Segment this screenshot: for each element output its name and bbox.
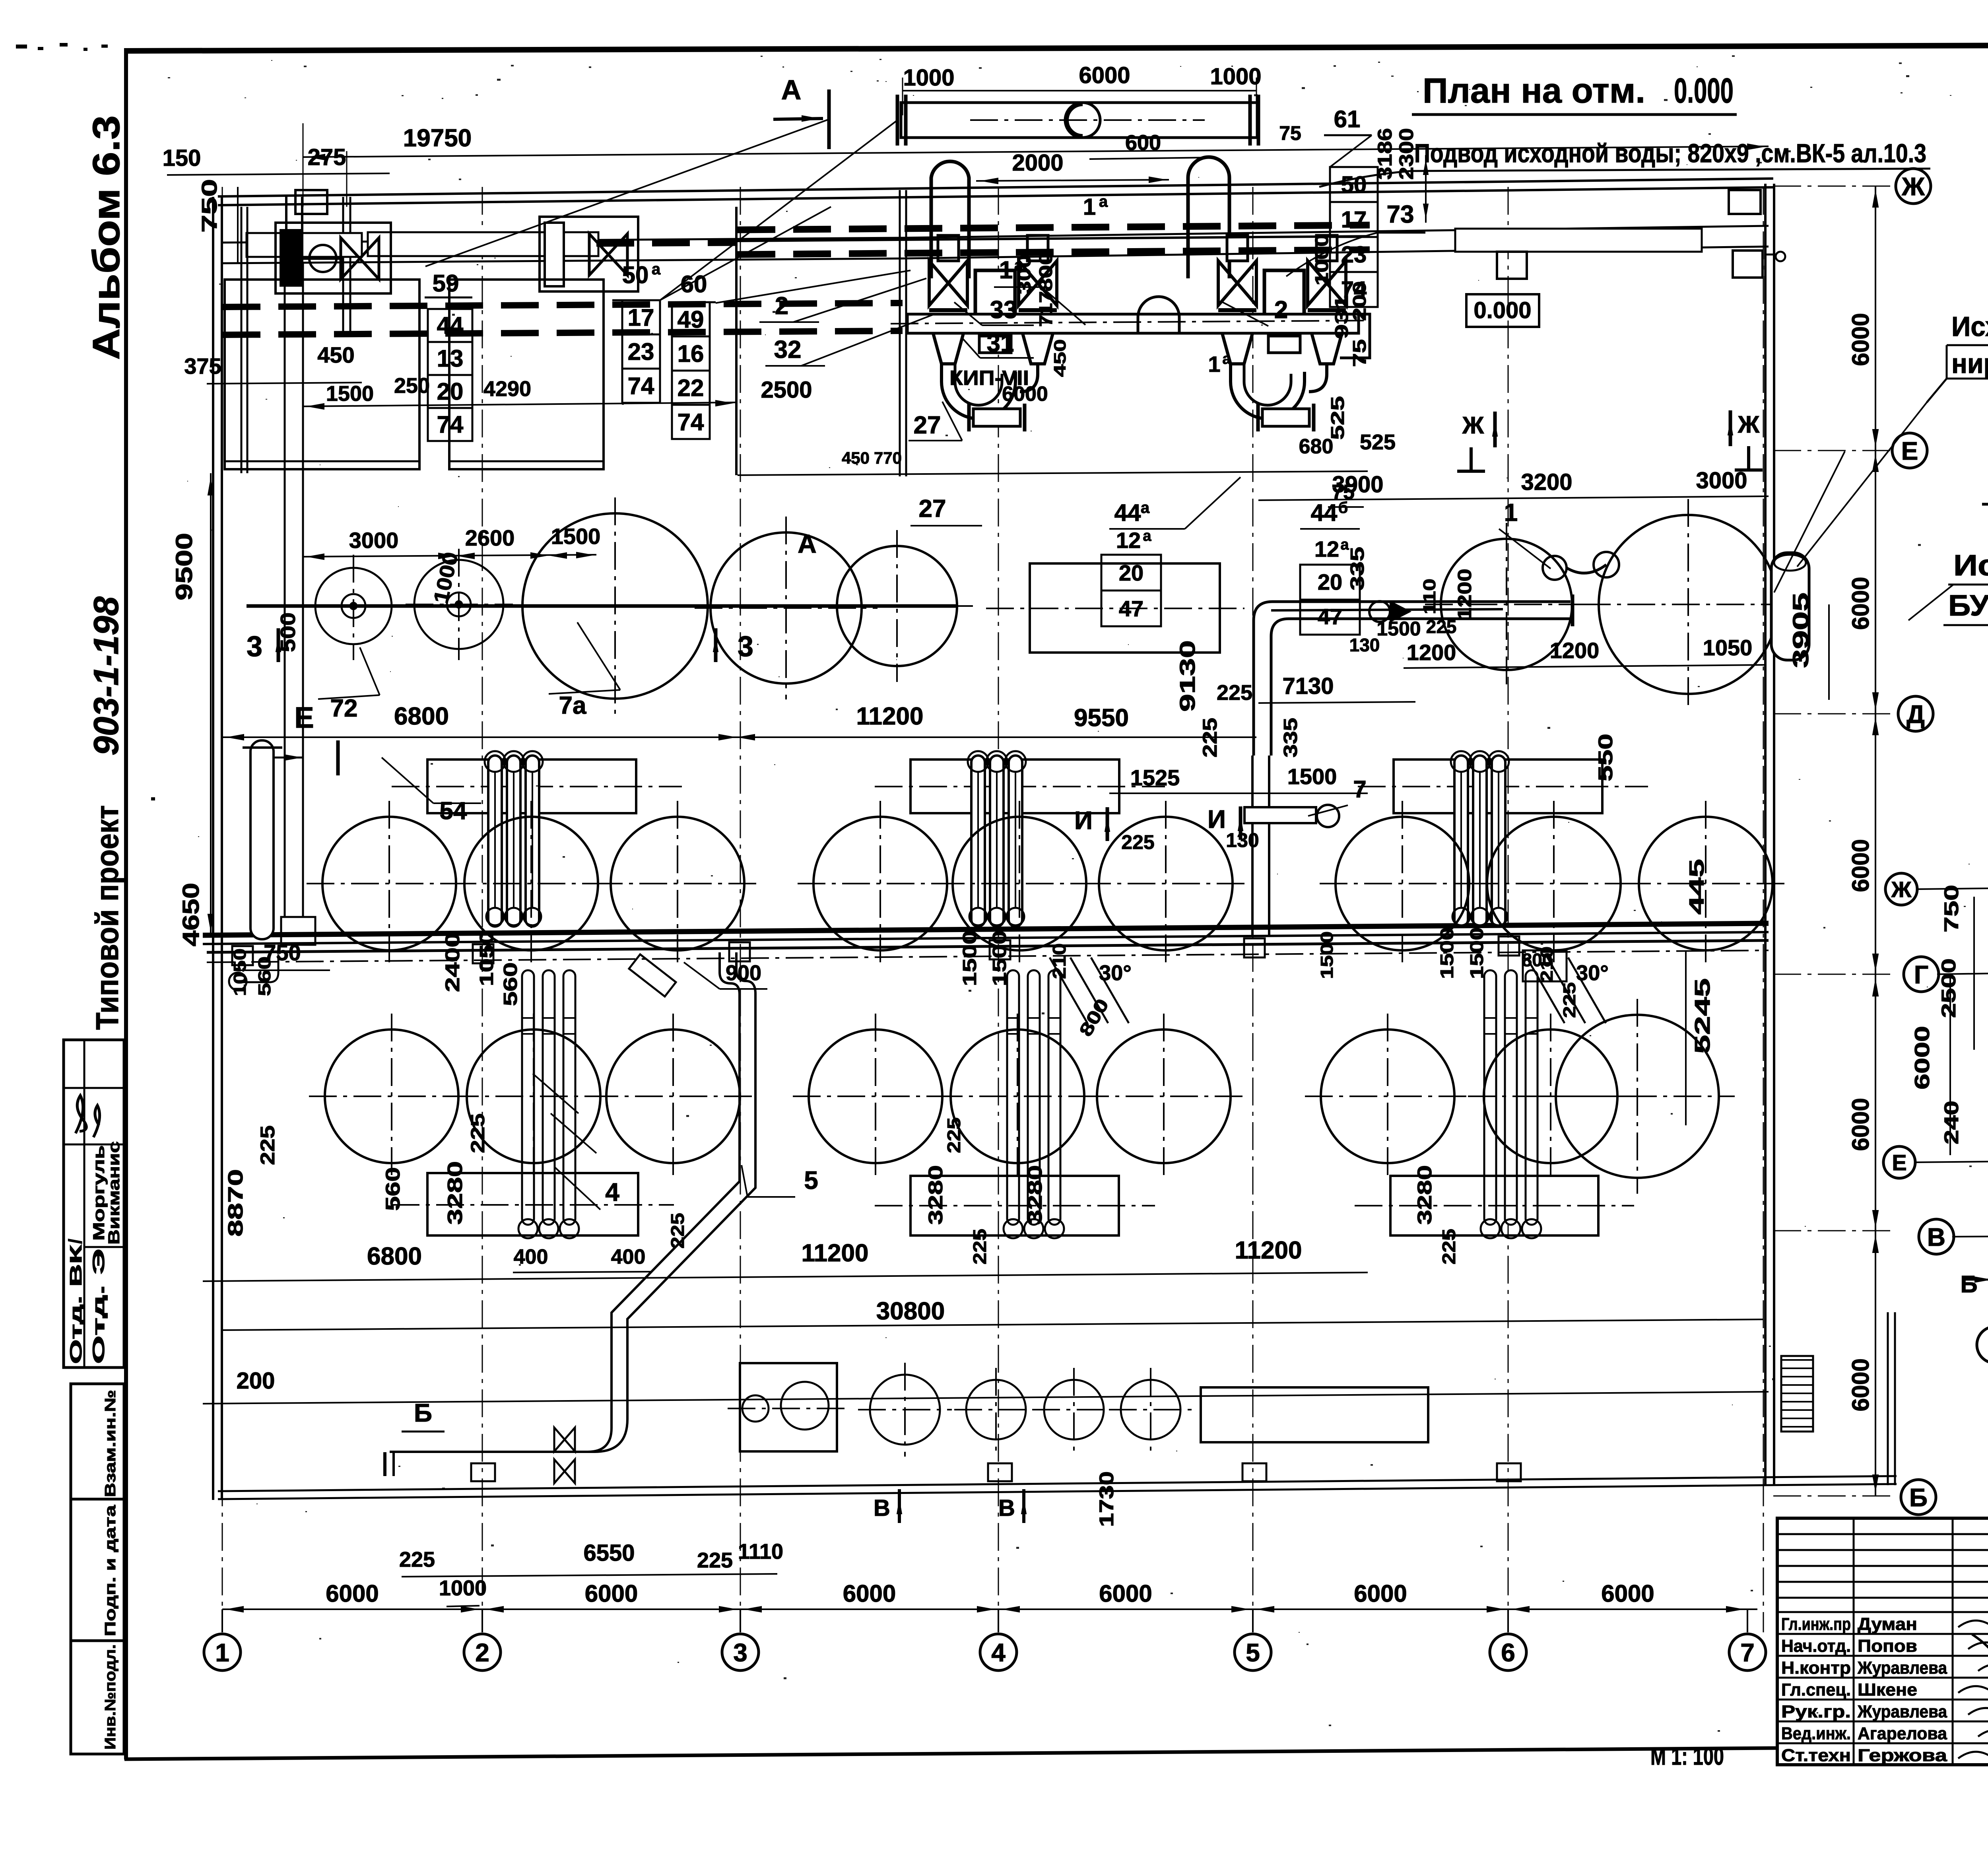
svg-text:а: а — [1222, 351, 1231, 367]
row1 pipe elbow and run — [1254, 602, 1571, 756]
svg-text:А: А — [781, 74, 802, 105]
svg-text:200: 200 — [237, 1368, 275, 1394]
left stamp table box Inv N podl — [71, 1641, 124, 1754]
lower pipe group at 1380 — [522, 970, 534, 1225]
svg-text:30800: 30800 — [876, 1298, 945, 1325]
svg-text:Подвод исходной воды; 820х9 ,: Подвод исходной воды; 820х9 ,см.ВК-5 ал.… — [1414, 138, 1926, 168]
small tank at 2701 — [1044, 1380, 1104, 1439]
svg-text:22: 22 — [678, 375, 704, 401]
svg-text:1000: 1000 — [1210, 64, 1261, 89]
svg-text:13: 13 — [437, 345, 464, 372]
rack pipe 1 — [1473, 756, 1487, 927]
svg-text:Е: Е — [1892, 1150, 1906, 1175]
axis circle Ж — [1885, 873, 1917, 905]
svg-text:6000: 6000 — [1847, 313, 1874, 366]
svg-text:75: 75 — [1279, 122, 1301, 144]
svg-text:525: 525 — [1360, 430, 1396, 454]
svg-text:4290: 4290 — [483, 377, 531, 401]
svg-text:903-1-198: 903-1-198 — [86, 596, 126, 756]
vertical pipe pair x716 through room — [284, 263, 286, 917]
svg-text:И: И — [1208, 805, 1226, 833]
svg-text:750: 750 — [198, 179, 221, 233]
pump outlet flanges — [967, 404, 971, 431]
left stamp table upper box — [64, 1040, 124, 1367]
svg-text:6000: 6000 — [1911, 1026, 1934, 1090]
svg-text:6800: 6800 — [367, 1243, 422, 1270]
dashed pipe lines pump corridor — [738, 225, 1370, 230]
svg-text:44: 44 — [1114, 499, 1141, 526]
svg-text:Б: Б — [1960, 1271, 1977, 1298]
svg-text:6000: 6000 — [1079, 62, 1130, 88]
svg-text:11200: 11200 — [856, 703, 924, 730]
svg-text:300: 300 — [1014, 254, 1035, 294]
svg-text:Шкене: Шкене — [1858, 1680, 1917, 1700]
pipe drop to lower at x3150 — [1251, 756, 1254, 936]
row1 pump circle 72 — [315, 568, 392, 644]
svg-text:Ст.техн: Ст.техн — [1781, 1746, 1851, 1765]
tank circle at 3527,2222 — [1336, 817, 1469, 950]
svg-text:225: 225 — [399, 1548, 435, 1571]
axis number circles bottom — [221, 1609, 223, 1632]
svg-text:1200: 1200 — [1454, 569, 1475, 620]
riser pipe left wall down — [250, 740, 274, 939]
svg-text:450: 450 — [317, 342, 354, 367]
svg-text:20: 20 — [1318, 569, 1342, 594]
frame top border — [124, 44, 1988, 51]
svg-text:Гл.инж.пр: Гл.инж.пр — [1781, 1614, 1851, 1634]
leader from blokam note down — [1908, 585, 1953, 620]
axis circle 3 — [722, 1634, 759, 1671]
main building interior right wall — [1764, 184, 1767, 1485]
svg-text:Вед.инж.: Вед.инж. — [1781, 1724, 1851, 1743]
tank circle at 2927,2757 — [1097, 1030, 1231, 1163]
tank circle at 1704,2222 — [611, 817, 744, 950]
svg-text:4: 4 — [991, 1638, 1006, 1667]
svg-text:6000: 6000 — [1847, 577, 1874, 630]
axis circle 2 — [464, 1634, 501, 1671]
svg-text:50: 50 — [622, 262, 649, 288]
svg-text:Журавлева: Журавлева — [1857, 1702, 1947, 1721]
wall pilasters top wall — [295, 190, 327, 214]
svg-text:2000: 2000 — [1012, 150, 1063, 176]
bottom long rectangle — [1201, 1387, 1428, 1442]
svg-text:130: 130 — [1349, 635, 1380, 655]
svg-text:Викманис: Викманис — [105, 1141, 123, 1245]
svg-text:225: 225 — [944, 1117, 964, 1153]
svg-text:И: И — [1074, 806, 1093, 835]
svg-text:225: 225 — [1199, 718, 1221, 758]
svg-text:Ж: Ж — [1462, 412, 1484, 439]
row1 equipment rectangle — [1030, 563, 1220, 653]
small pipe fitting row2 area — [1244, 807, 1316, 823]
svg-text:800: 800 — [1035, 252, 1056, 291]
svg-text:3280: 3280 — [924, 1165, 947, 1225]
pump outlet flanges — [1256, 404, 1260, 431]
svg-text:0.000: 0.000 — [1674, 71, 1734, 110]
pipe rack rectangle upper at 3505 — [1394, 760, 1602, 813]
svg-text:75: 75 — [1349, 339, 1370, 367]
svg-text:Инв.№подл.: Инв.№подл. — [102, 1644, 119, 1750]
svg-text:А: А — [798, 529, 817, 558]
svg-text:Нач.отд.: Нач.отд. — [1781, 1636, 1851, 1656]
svg-text:3000: 3000 — [1696, 468, 1747, 493]
svg-text:4: 4 — [605, 1178, 619, 1206]
svg-text:335: 335 — [1347, 547, 1368, 591]
lower pipe group at 3800 — [1484, 970, 1496, 1225]
number stack 50 17 23 74 right — [1330, 167, 1378, 202]
svg-text:61: 61 — [1334, 106, 1361, 132]
svg-text:800: 800 — [1522, 950, 1553, 970]
stair hatch bottom right — [1781, 1356, 1813, 1432]
axis circle 4 — [980, 1634, 1017, 1671]
svg-text:6000: 6000 — [1002, 383, 1048, 406]
rack pipe 0 — [1454, 756, 1468, 927]
right lower wall segment — [1887, 1312, 1889, 1485]
svg-text:Отд. Э: Отд. Э — [89, 1249, 108, 1364]
main building top wall — [218, 187, 1773, 205]
svg-text:Исходная вода в линию Н-катио-: Исходная вода в линию Н-катио- — [1951, 311, 1988, 342]
svg-text:План на отм.: План на отм. — [1423, 71, 1645, 110]
valve left branch — [929, 261, 967, 305]
svg-text:1: 1 — [999, 256, 1013, 284]
svg-text:6000: 6000 — [843, 1580, 896, 1607]
svg-text:750: 750 — [1940, 885, 1963, 932]
row1 dim 3000 2600 1500 — [302, 555, 596, 557]
svg-text:600: 600 — [1125, 131, 1161, 155]
manifold flange right — [1248, 95, 1252, 146]
svg-text:Подп. и дата: Подп. и дата — [102, 1505, 119, 1636]
svg-text:20: 20 — [437, 378, 464, 405]
pump U pipe — [942, 364, 1015, 419]
svg-text:3: 3 — [738, 631, 753, 662]
svg-text:5: 5 — [804, 1166, 818, 1195]
svg-text:9130: 9130 — [1176, 640, 1200, 712]
funnel left branch — [928, 316, 968, 364]
svg-text:Гл.спец.: Гл.спец. — [1781, 1680, 1851, 1700]
pipe along middle wall — [207, 940, 1769, 952]
svg-text:Д: Д — [1906, 700, 1925, 728]
interior wall axis2-left room — [342, 197, 344, 336]
svg-text:50: 50 — [1341, 172, 1367, 198]
small tank at 2894 — [1121, 1380, 1180, 1439]
svg-text:1: 1 — [1504, 499, 1518, 526]
svg-text:6000: 6000 — [326, 1580, 379, 1607]
manifold arch right + riser — [1188, 157, 1229, 278]
axis circle Д — [1898, 696, 1933, 731]
frame left border — [124, 48, 128, 1760]
svg-text:Типовой проект: Типовой проект — [89, 805, 125, 1030]
svg-text:225: 225 — [468, 1113, 489, 1153]
pipe mid U elbow — [1138, 297, 1179, 333]
pump body — [975, 270, 1015, 316]
pipe rack rectangle upper at 1075 — [427, 760, 636, 813]
small tank at 2505 — [966, 1380, 1026, 1439]
svg-text:560: 560 — [500, 962, 521, 1006]
svg-text:Ж: Ж — [1891, 877, 1912, 902]
svg-text:30°: 30° — [1576, 961, 1609, 985]
svg-text:1500: 1500 — [989, 930, 1010, 986]
svg-text:110: 110 — [1420, 579, 1439, 614]
svg-text:2: 2 — [775, 292, 788, 320]
big signature squiggle over column — [1972, 1626, 1988, 1754]
svg-text:нированной воды; 108х3.5: нированной воды; 108х3.5 — [1951, 348, 1988, 379]
axis circle 1 — [204, 1634, 241, 1671]
dim chain 11200 30800 — [203, 1272, 1368, 1281]
svg-text:1500: 1500 — [959, 930, 980, 986]
svg-text:560: 560 — [255, 956, 274, 996]
svg-text:30°: 30° — [1099, 961, 1132, 985]
wall pilasters middle wall — [232, 946, 253, 965]
rack pipe 0 — [971, 756, 985, 927]
axis circle Ж — [1896, 169, 1931, 204]
svg-text:240: 240 — [1940, 1101, 1963, 1144]
svg-text:Е: Е — [294, 701, 314, 734]
tank circle at 1547,1524 — [522, 513, 708, 699]
tank circle at 3900,2757 — [1484, 1030, 1617, 1163]
svg-text:445: 445 — [1685, 859, 1708, 915]
svg-text:Е: Е — [1901, 437, 1918, 465]
svg-text:73: 73 — [1387, 201, 1414, 228]
vertical 6000 dims right side — [1875, 186, 1876, 1496]
svg-text:16: 16 — [678, 340, 704, 367]
svg-text:225: 225 — [969, 1229, 990, 1265]
tank circle at 2564,2222 — [953, 817, 1086, 950]
upper-left valve assembly 2 — [540, 217, 638, 291]
left pipe drop lower hall — [243, 954, 278, 982]
pump manifold top pipe — [901, 103, 1257, 138]
30 degree bend marks — [1050, 958, 1129, 1023]
svg-text:6000: 6000 — [1354, 1580, 1407, 1607]
svg-text:400: 400 — [611, 1245, 646, 1268]
row1 pump circle 7a — [414, 560, 503, 649]
svg-text:Ж: Ж — [1738, 411, 1760, 438]
svg-text:Рук.гр.: Рук.гр. — [1781, 1702, 1851, 1721]
cylinder fitting right of tank5 — [1771, 553, 1809, 660]
leader from note to plan — [1797, 402, 1927, 567]
svg-text:500: 500 — [277, 612, 300, 652]
tank circle at 979,2222 — [322, 817, 456, 950]
manifold arch left + riser — [931, 161, 969, 278]
svg-text:1500: 1500 — [551, 524, 601, 549]
tank circle at 4246,1520 — [1599, 515, 1778, 694]
svg-text:Взам.ин.№: Взам.ин.№ — [102, 1390, 119, 1497]
svg-text:Журавлева: Журавлева — [1857, 1658, 1947, 1678]
main building left wall — [212, 197, 214, 1500]
svg-text:2500: 2500 — [761, 377, 812, 403]
svg-text:7: 7 — [1740, 1638, 1755, 1667]
row4 box with circles — [740, 1363, 837, 1451]
svg-text:27: 27 — [919, 495, 946, 523]
pump unit at 2385 — [938, 235, 959, 261]
svg-text:7: 7 — [1353, 776, 1366, 802]
svg-text:Г: Г — [1914, 960, 1928, 989]
svg-text:225: 225 — [256, 1125, 279, 1165]
svg-text:1500: 1500 — [1317, 931, 1337, 979]
upper-left horizontal pipe bundle — [223, 238, 903, 243]
svg-text:31: 31 — [987, 330, 1014, 357]
svg-text:Попов: Попов — [1858, 1636, 1917, 1656]
leader lines from tables — [660, 207, 831, 300]
axis circle Е — [1883, 1146, 1915, 1178]
svg-text:23: 23 — [1341, 242, 1367, 268]
svg-text:6000: 6000 — [1601, 1580, 1654, 1607]
tank circle at 1977,1529 — [711, 532, 862, 684]
svg-text:3280: 3280 — [1024, 1165, 1046, 1225]
svg-text:б: б — [1338, 499, 1348, 517]
svg-text:450: 450 — [1050, 339, 1069, 377]
svg-text:44: 44 — [437, 312, 464, 339]
funnel left branch — [1217, 316, 1257, 364]
axis circle 1 — [1977, 1327, 1988, 1363]
svg-text:/: / — [65, 1239, 85, 1244]
svg-text:Б: Б — [1909, 1483, 1928, 1512]
svg-text:12: 12 — [1314, 536, 1339, 561]
svg-text:225: 225 — [1217, 681, 1252, 705]
svg-text:а: а — [1143, 528, 1151, 544]
svg-text:11200: 11200 — [802, 1239, 869, 1267]
svg-text:Альбом 6.3: Альбом 6.3 — [85, 115, 128, 360]
svg-text:2: 2 — [475, 1638, 489, 1667]
svg-text:Думан: Думан — [1858, 1614, 1917, 1634]
svg-text:2600: 2600 — [465, 525, 515, 550]
dims 1000 6000 1000 top — [902, 78, 903, 115]
svg-text:1200: 1200 — [1550, 638, 1600, 663]
svg-text:6550: 6550 — [583, 1540, 635, 1566]
svg-text:1050: 1050 — [1703, 635, 1753, 660]
bottom fittings near pipe5 — [554, 1428, 575, 1451]
svg-text:Ж: Ж — [1901, 172, 1925, 201]
svg-text:27: 27 — [914, 412, 941, 439]
svg-text:5: 5 — [1246, 1638, 1260, 1667]
tank circle at 1693,2757 — [606, 1030, 740, 1163]
axis horizontal segments letters — [1773, 186, 1896, 187]
pipe rack rectangle upper at 2290 — [911, 760, 1119, 813]
svg-text:1110: 1110 — [738, 1540, 783, 1564]
svg-text:450: 450 — [842, 449, 870, 467]
valve fitting on row1 pipe — [1390, 600, 1411, 623]
svg-text:3280: 3280 — [1413, 1165, 1436, 1225]
rack pipe 2 — [1492, 756, 1505, 927]
svg-text:8870: 8870 — [224, 1169, 247, 1237]
axis dim chain bottom 6000s — [222, 1608, 1757, 1610]
svg-text:550: 550 — [1594, 734, 1617, 781]
pipe 1a end elbow right — [1340, 314, 1370, 358]
svg-text:6000: 6000 — [1847, 1098, 1874, 1151]
funnel right branch — [1018, 316, 1058, 364]
valve right branch — [1019, 261, 1057, 305]
tank circle at 2559,2757 — [951, 1030, 1084, 1163]
valve right branch — [1308, 261, 1346, 305]
svg-text:1500: 1500 — [1287, 764, 1337, 789]
svg-text:Н.контр: Н.контр — [1781, 1658, 1851, 1678]
tank circle at 3908,2222 — [1487, 817, 1621, 950]
svg-text:1500: 1500 — [1466, 927, 1487, 979]
lower rack rectangles — [427, 1173, 638, 1235]
svg-text:375: 375 — [184, 354, 221, 379]
svg-text:М 1: 100: М 1: 100 — [1650, 1743, 1724, 1770]
svg-text:Исходная вода к блокам: Исходная вода к блокам — [1953, 549, 1988, 582]
svg-text:а: а — [652, 260, 661, 278]
0.000 level box — [1466, 294, 1539, 327]
svg-text:130: 130 — [1226, 829, 1259, 851]
rack pipe 1 — [990, 756, 1004, 927]
svg-text:17: 17 — [628, 304, 654, 331]
axis circle В — [1919, 1219, 1954, 1254]
dims around row1 right: 3900 3200 3000 — [1258, 496, 1769, 500]
svg-text:1500: 1500 — [1376, 618, 1421, 640]
left stamp signature squiggles — [76, 1096, 100, 1137]
svg-text:74: 74 — [628, 373, 654, 399]
svg-text:47: 47 — [1119, 596, 1143, 621]
svg-text:12: 12 — [1116, 528, 1141, 553]
number stack 12a 20 47 unit1 — [1101, 554, 1161, 556]
axis vertical dash-dot lines 1-7 — [222, 187, 223, 1632]
svg-text:150: 150 — [163, 145, 201, 171]
tank circle at 1342,2757 — [467, 1030, 600, 1163]
frame bottom border — [124, 1748, 1776, 1759]
svg-text:49: 49 — [678, 306, 704, 333]
rack pipe 2 — [526, 756, 539, 927]
svg-text:335: 335 — [1280, 718, 1301, 758]
valve left branch — [1218, 261, 1256, 305]
main building middle wall — [203, 923, 1769, 935]
svg-text:4650: 4650 — [178, 883, 204, 946]
svg-text:19750: 19750 — [403, 124, 472, 152]
wall pilasters bottom wall — [471, 1463, 495, 1481]
tank circle at 2202,2757 — [809, 1030, 942, 1163]
funnel right branch — [1307, 316, 1347, 364]
svg-text:3: 3 — [733, 1638, 747, 1667]
svg-text:400: 400 — [514, 1245, 548, 1268]
svg-text:6: 6 — [1501, 1638, 1515, 1667]
svg-text:3905: 3905 — [1788, 592, 1813, 668]
upper-left valve assembly 1 — [276, 223, 391, 293]
lower pipe group at 2600 — [1007, 970, 1019, 1225]
big diagonal leaders from A — [425, 119, 829, 266]
interior wall axis3 upper — [735, 207, 738, 475]
svg-text:17: 17 — [1341, 207, 1367, 233]
dim line 6800-11200-9550 row — [223, 736, 1256, 738]
pipe 5 vertical — [390, 952, 740, 1452]
top wall pipe bundles right part — [903, 226, 1769, 238]
dashed pipe lines left corridor — [223, 303, 903, 307]
svg-text:225: 225 — [1560, 982, 1579, 1018]
small circles fittings near tank4 — [1543, 556, 1567, 580]
svg-text:а: а — [1099, 193, 1108, 210]
rack pipe 1 — [507, 756, 520, 927]
pipe continues through tank to fitting — [1271, 609, 1503, 610]
tank circle at 985,2757 — [325, 1030, 458, 1163]
svg-text:54: 54 — [440, 797, 467, 825]
svg-text:20: 20 — [1119, 560, 1143, 585]
axis circle Б — [1901, 1480, 1936, 1515]
manifold centre circle — [1065, 103, 1100, 138]
axis circle 5 — [1235, 1634, 1271, 1671]
tank circle at 2256,1524 — [837, 546, 957, 666]
svg-text:1: 1 — [1083, 194, 1096, 220]
svg-text:1730: 1730 — [1095, 1471, 1118, 1527]
tank circle at 3789,1520 — [1441, 539, 1572, 670]
svg-text:9550: 9550 — [1074, 704, 1129, 732]
svg-text:7130: 7130 — [1282, 673, 1334, 699]
svg-text:БУ-Н-3000х3;: БУ-Н-3000х3; — [1948, 589, 1988, 622]
svg-text:59: 59 — [433, 270, 459, 297]
svg-text:900: 900 — [726, 961, 761, 985]
svg-text:23: 23 — [628, 338, 654, 365]
pump unit at 3112 — [1227, 235, 1248, 261]
svg-text:1525: 1525 — [1130, 765, 1180, 790]
svg-text:11200: 11200 — [1235, 1237, 1302, 1264]
